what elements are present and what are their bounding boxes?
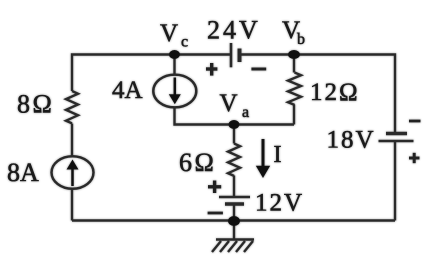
- wire right lower (18V battery to bottom-right corner): [394, 141, 396, 221]
- minus of 24V: [251, 68, 266, 71]
- node Vc dot: [169, 50, 180, 59]
- resistor R 12ohm zigzag: [288, 73, 301, 105]
- battery V2 18V plates: [379, 134, 414, 142]
- arrow of 8A source (up): [67, 160, 79, 187]
- plus of 24V: [206, 63, 217, 76]
- wire top-left segment (corner to 24V battery, through node Vc): [72, 55, 231, 92]
- current source I1 8A circle: [52, 156, 94, 189]
- resistor R 8ohm zigzag: [66, 91, 78, 123]
- current source I2 4A circle: [153, 75, 196, 108]
- battery V1 24V plates: [231, 43, 240, 67]
- wire Vb down to 12ohm top: [293, 55, 295, 73]
- ground symbol: [212, 240, 254, 253]
- arrow of 4A source (down): [169, 78, 181, 105]
- wire left mid (8ohm bottom to 8A source top): [71, 124, 73, 157]
- minus of 12V: [208, 212, 223, 215]
- battery V3 12V plates: [219, 197, 250, 204]
- wire bottom rail: [72, 219, 395, 221]
- node Vb dot: [288, 50, 300, 59]
- minus of 18V: [409, 120, 421, 123]
- wire left lower (8A source bottom to bottom-left corner): [71, 189, 73, 221]
- current arrow I (down): [256, 139, 270, 178]
- wire node Va down to 6ohm top: [233, 125, 235, 144]
- plus of 18V: [409, 153, 420, 163]
- wire top-right segment (24V battery to top-right corner): [241, 55, 395, 134]
- node ground dot: [228, 216, 240, 226]
- wire 12ohm bottom to Va rail: [293, 105, 295, 125]
- wire ground stub: [233, 221, 235, 240]
- wire 4A source bottom to node Va rail: [175, 108, 295, 125]
- wire 6ohm bottom to 12V battery: [233, 176, 235, 198]
- wire Vc stub down to 4A source: [173, 55, 175, 76]
- wire 12V battery to bottom node: [233, 204, 235, 221]
- plus of 12V: [208, 181, 221, 194]
- node Va dot: [229, 120, 240, 129]
- polarity signs: [206, 63, 421, 213]
- resistor R 6ohm zigzag: [228, 144, 240, 176]
